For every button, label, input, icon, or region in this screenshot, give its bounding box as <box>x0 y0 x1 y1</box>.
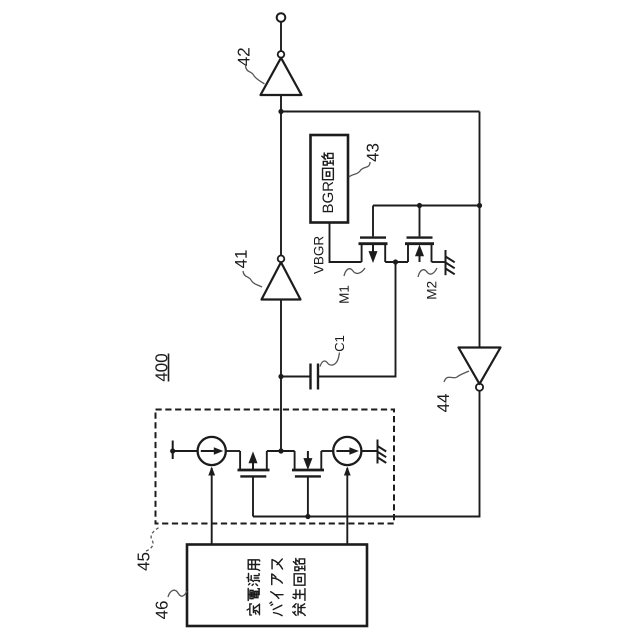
leader to 43 <box>349 162 370 177</box>
box 46 text column teitei den ryu you (constant current) <box>247 560 260 615</box>
junction main wire at C1 <box>278 374 283 379</box>
wire M2 drain to ground <box>432 261 446 263</box>
junction gate net at right rail <box>477 203 482 208</box>
label 41 <box>235 250 247 268</box>
label 44 <box>437 394 449 412</box>
wire I2 to ground <box>361 450 377 452</box>
label 42 <box>238 48 250 66</box>
inverter 42 bubble <box>278 51 285 58</box>
ground in block 45 <box>378 440 387 464</box>
leader to M1 <box>344 268 365 276</box>
junction Q2 gate on rail <box>305 514 310 519</box>
dashed box 45 <box>156 410 395 524</box>
bias arrow left <box>208 467 215 545</box>
right rail vertical wire <box>479 112 481 348</box>
wire M1 drain to M2 source <box>385 261 408 263</box>
leader to 41 <box>243 271 262 287</box>
label M2 <box>427 282 436 299</box>
transistor Q2 <box>292 451 324 517</box>
wire VBGR from BGR box to M1 source <box>330 223 362 263</box>
wire stub to current source I1 <box>173 450 198 452</box>
label 45 <box>138 553 150 571</box>
wire node A to right rail <box>281 111 480 113</box>
underline of 400 <box>168 354 170 382</box>
transistor M2 <box>405 206 434 263</box>
leader to 45 <box>146 527 160 551</box>
leader to 46 <box>168 590 187 597</box>
wire Q2 to current source I2 <box>321 450 333 452</box>
wire Q1 to node C <box>267 450 295 452</box>
wire terminal to inverter 42 bubble <box>280 22 282 51</box>
box 46 text column baiasu (bias) <box>270 559 283 616</box>
capacitor C1 plates <box>311 364 319 390</box>
current source I2 <box>333 437 361 465</box>
box 46 text column hassei kairo (generator circuit) <box>293 559 305 616</box>
transistor M1 <box>359 206 388 263</box>
gate net wire M1 M2 <box>373 205 480 207</box>
wire node B down to C1 <box>318 262 396 377</box>
transistor Q1 <box>238 451 270 517</box>
buffer 41 triangle <box>262 262 301 299</box>
leader to 44 <box>444 371 469 382</box>
BGR box text kanji kai <box>323 168 334 179</box>
leader to M2 <box>418 268 437 277</box>
current source I1 <box>198 437 226 465</box>
input stub terminal <box>172 441 174 460</box>
node C junction center <box>278 448 283 453</box>
buffer 41 bubble <box>278 255 285 262</box>
node A junction <box>278 109 283 114</box>
label 43 <box>367 144 379 162</box>
ground at M2 <box>446 250 455 275</box>
BGR box text BGR <box>323 182 334 213</box>
BGR circuit block 43 box <box>311 135 349 223</box>
label VBGR <box>314 237 324 275</box>
leader to 42 <box>246 66 265 84</box>
terminal (output pad) <box>277 13 286 22</box>
label C1 <box>335 336 344 351</box>
label 400 <box>155 354 167 381</box>
bias arrow right <box>344 467 351 545</box>
wire 42 base down to node A <box>280 95 282 255</box>
leader to C1 <box>320 353 340 367</box>
inverter 42 triangle <box>261 58 302 95</box>
gate rail wire Q1 Q2 to inverter 44 <box>253 391 480 517</box>
wire 41 base down into block 45 <box>280 300 282 452</box>
junction M2 gate <box>417 203 422 208</box>
bias generator box 46 <box>187 545 367 627</box>
label 46 <box>156 601 168 619</box>
BGR box text kanji ro <box>322 153 333 165</box>
wire to C1 left plate <box>281 376 311 378</box>
inverter 44 bubble <box>476 384 483 391</box>
node B junction between M1 M2 <box>393 259 398 264</box>
wire I1 to Q1 <box>226 450 241 452</box>
inverter 44 triangle <box>459 348 501 385</box>
label M1 <box>339 286 348 303</box>
junction at input stub <box>170 448 175 453</box>
